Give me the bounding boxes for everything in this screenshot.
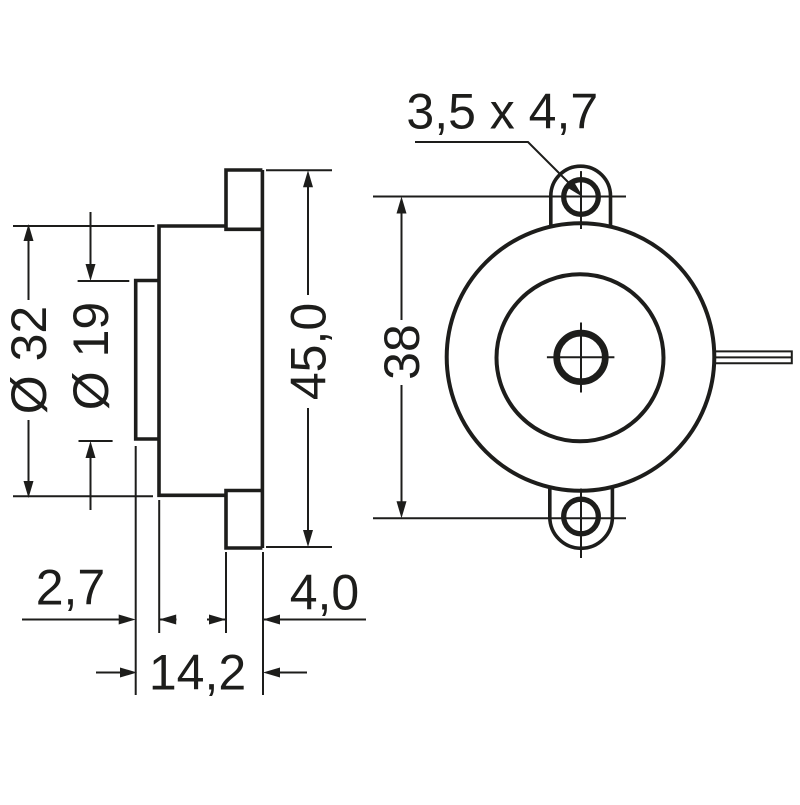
extension line E2 body left	[158, 500, 160, 633]
dim Ø19 arrow up	[86, 441, 96, 458]
svg-text:4,0: 4,0	[290, 565, 360, 621]
dim Ø32 arrow up	[24, 224, 34, 241]
dim 14,2 arrow left	[263, 668, 280, 678]
side view: front step outline	[136, 281, 159, 440]
dim 4,0 arrow right	[209, 615, 226, 625]
side view: flange bottom tab	[226, 491, 262, 549]
front view: inner circle	[497, 274, 664, 441]
dim 45,0 extension line top	[266, 169, 332, 171]
dim Ø32 extension line top	[13, 225, 155, 227]
leader line 3,5x4,7	[415, 142, 570, 184]
dim 14,2 left tail	[96, 672, 121, 674]
dim 45,0 line	[307, 174, 309, 543]
side view: body outline	[159, 226, 226, 495]
dim Ø19 extension line top	[78, 280, 130, 282]
dim Ø19 arrow down	[86, 264, 96, 281]
dim Ø32 line	[28, 230, 30, 491]
extension line E3 flange left	[225, 552, 227, 633]
dim Ø19 tails	[90, 212, 92, 510]
dim Ø32 arrow down	[24, 481, 34, 498]
front view: center crosshair	[547, 323, 615, 393]
dim 45,0 extension line bottom	[266, 546, 332, 548]
front view: top ear	[551, 166, 611, 227]
dim 38 line	[401, 200, 403, 514]
front view: bottom ear vertical crosshair	[580, 489, 582, 559]
extension line E1 front face	[135, 446, 137, 695]
svg-text:2,7: 2,7	[36, 560, 106, 616]
dim 45,0 arrow down	[303, 530, 313, 547]
side view: flange top tab	[226, 170, 262, 229]
front view: center hole	[557, 333, 606, 382]
dim 2,7 right tail	[159, 619, 176, 621]
dim Ø32 extension line bottom	[13, 495, 153, 497]
svg-text:Ø 32: Ø 32	[1, 306, 57, 414]
terminal pin	[716, 351, 792, 363]
dim 2,7 arrow left	[159, 615, 176, 625]
front view: outer circle	[447, 223, 715, 491]
svg-text:45,0: 45,0	[281, 303, 337, 400]
front view: bottom ear hole	[564, 499, 599, 534]
dim 38 extension line top	[373, 196, 626, 198]
dim 14,2 right tail	[279, 672, 307, 674]
front view: top ear vertical crosshair	[580, 171, 582, 229]
side view: flange right edge	[261, 170, 265, 548]
dim 4,0 arrow left	[263, 615, 280, 625]
dim 4,0 right tail	[263, 619, 366, 621]
dim 38 extension line bottom	[373, 517, 626, 519]
svg-text:Ø 19: Ø 19	[63, 302, 119, 410]
svg-text:14,2: 14,2	[149, 645, 246, 701]
leader arrow	[567, 181, 584, 198]
dim 2,7 arrow right	[119, 615, 136, 625]
dim 2,7 left tail	[22, 619, 119, 621]
dim Ø19 extension line bottom	[79, 440, 113, 442]
extension line E4 flange right	[262, 552, 264, 695]
dim 38 arrow down	[397, 501, 407, 518]
svg-text:38: 38	[374, 324, 430, 380]
dim 38 arrow up	[397, 197, 407, 214]
front view: top ear hole	[564, 180, 599, 215]
front view: bottom ear	[550, 487, 613, 548]
svg-text:3,5 x 4,7: 3,5 x 4,7	[406, 84, 598, 140]
dim 14,2 arrow right	[120, 668, 137, 678]
dim 45,0 arrow up	[303, 170, 313, 187]
dim 4,0 left tail	[207, 619, 226, 621]
